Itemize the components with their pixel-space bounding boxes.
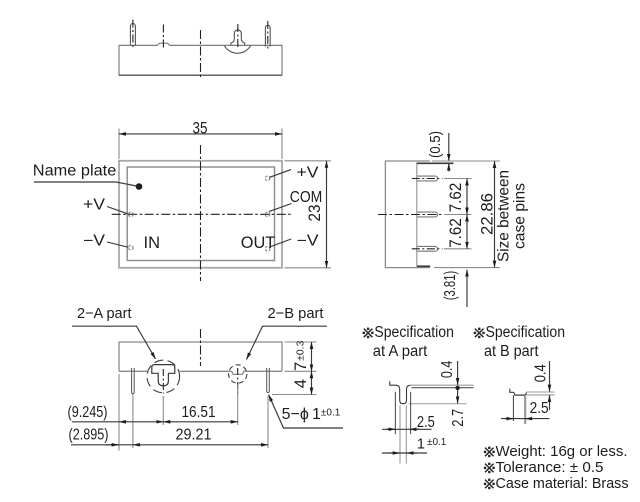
view 2: plan view bbox=[33, 118, 331, 281]
dim line 16.51 bbox=[163, 421, 237, 423]
svg-text:Specification: Specification bbox=[374, 324, 454, 341]
left pin centerline (view 1) bbox=[132, 20, 134, 50]
spec A dim 1 arrows bbox=[389, 452, 400, 454]
case inner wall (view 3) bbox=[416, 163, 418, 267]
case bottom lip (view 3) bbox=[417, 265, 430, 267]
svg-text:(2.895): (2.895) bbox=[69, 426, 109, 443]
vertical centerline (view 2) bbox=[200, 145, 202, 281]
dim 35 extension line left bbox=[118, 129, 120, 160]
pin circle right top (view 2) bbox=[265, 176, 270, 181]
dim (2.895) outside arrow bbox=[106, 444, 119, 446]
B part centerline (view 4) bbox=[237, 368, 239, 395]
svg-text:(9.245): (9.245) bbox=[68, 404, 108, 421]
svg-text:0.4: 0.4 bbox=[439, 360, 456, 378]
dim (0.5) lower stem bbox=[448, 164, 450, 172]
spec A: pin inner wall right bbox=[405, 406, 407, 464]
right pin centerline (view 1) bbox=[267, 21, 269, 49]
spec B dim 2.5 arrows bbox=[504, 418, 513, 420]
spec B: left wall extended bbox=[512, 395, 514, 421]
dim line (9.245) left tail bbox=[72, 421, 119, 423]
case outer rect (view 2) bbox=[119, 161, 282, 268]
leader -V left bbox=[107, 242, 128, 247]
case bottom edge right segment (view 4) bbox=[247, 370, 282, 372]
dim line 22.86 bbox=[494, 161, 496, 268]
A part dashed circle (view 4) bbox=[147, 360, 180, 393]
note weight bbox=[484, 447, 495, 458]
dim line 7.62 upper bbox=[466, 179, 468, 215]
case bottom edge mid segment (view 4) bbox=[180, 370, 229, 372]
leader +V left bbox=[107, 207, 128, 215]
header Specification at B part bbox=[474, 328, 485, 339]
dim 22.86 extension top bbox=[432, 160, 500, 162]
dim 23 extension line bottom bbox=[285, 267, 332, 269]
case body (view 4) bbox=[119, 342, 282, 371]
dim line 29.21 bbox=[133, 444, 268, 446]
svg-text:Specification: Specification bbox=[486, 324, 566, 341]
left pin (view 4) bbox=[132, 368, 135, 393]
spec A dim 2.5 arrows bbox=[386, 428, 395, 430]
spec A: pin outer wall right bbox=[410, 392, 412, 435]
pin circle right bottom (view 2) bbox=[265, 247, 270, 252]
name plate dot bbox=[136, 183, 143, 190]
svg-text:+V: +V bbox=[83, 196, 106, 213]
svg-text:at B part: at B part bbox=[484, 343, 539, 360]
A-part boss arc (view 1) bbox=[224, 45, 250, 53]
svg-text:7.62: 7.62 bbox=[447, 218, 465, 248]
A-part centerline (view 1) bbox=[237, 24, 239, 48]
spec B dim 0.4 lower stem bbox=[549, 395, 551, 410]
svg-text:22.86: 22.86 bbox=[479, 193, 497, 235]
leader +V right bbox=[269, 170, 291, 178]
spec A dim 0.4 stem bbox=[457, 361, 459, 385]
spec A: case bottom top surface right bbox=[411, 384, 474, 386]
spec A: case bottom lower surface right bbox=[412, 387, 474, 389]
spec B: case surface with recess bbox=[510, 389, 527, 396]
note tolerance bbox=[484, 463, 495, 474]
svg-text:35: 35 bbox=[193, 118, 208, 137]
svg-text:Name plate: Name plate bbox=[33, 162, 117, 179]
svg-text:2.7: 2.7 bbox=[450, 409, 467, 427]
svg-text:(0.5): (0.5) bbox=[428, 131, 444, 158]
svg-text:−V: −V bbox=[297, 232, 320, 249]
svg-text:29.21: 29.21 bbox=[176, 426, 212, 443]
vertical centerline (view 4) bbox=[200, 329, 202, 366]
svg-text:at A part: at A part bbox=[373, 343, 428, 360]
svg-text:2.5: 2.5 bbox=[530, 400, 549, 417]
svg-text:4: 4 bbox=[292, 379, 310, 388]
spec A: pin inner wall left bbox=[399, 406, 401, 464]
spec headers and notes bbox=[363, 324, 629, 492]
bump centerline (view 1) bbox=[162, 25, 164, 49]
ext line body left (view 4) bbox=[118, 374, 120, 451]
svg-text:case pins: case pins bbox=[512, 183, 529, 249]
case bottom edge left segment (view 4) bbox=[119, 370, 147, 372]
ext line 7dim top (view 4) bbox=[285, 341, 317, 343]
dim 23 extension line top bbox=[285, 160, 332, 162]
view 3: side view with case pins bbox=[378, 131, 529, 307]
svg-text:2−B part: 2−B part bbox=[268, 305, 325, 322]
svg-text:7.62: 7.62 bbox=[447, 183, 465, 213]
dim line (9.245) bbox=[119, 421, 163, 423]
pin extension line middle (view 3) bbox=[444, 214, 472, 216]
spec B: recess bottom bbox=[515, 394, 525, 396]
svg-text:2.5: 2.5 bbox=[417, 414, 435, 431]
A part T pin (view 4) bbox=[152, 365, 175, 386]
A-part T pin (view 1) bbox=[231, 30, 245, 45]
top pin (view 3) bbox=[417, 176, 438, 181]
left pin (view 1) bbox=[130, 24, 135, 46]
spec A: pin outer wall left bbox=[394, 392, 396, 435]
case body outline (view 3) bbox=[385, 161, 429, 268]
leader -V right bbox=[270, 239, 292, 247]
spec B dim 2.5 line bbox=[501, 418, 550, 420]
view 1: case top-edge view bbox=[119, 20, 282, 80]
svg-text:2−A part: 2−A part bbox=[77, 305, 132, 322]
svg-text:−V: −V bbox=[83, 232, 106, 249]
dim line 4 bbox=[311, 371, 313, 394]
dim (0.5) upper stem bbox=[448, 133, 450, 161]
ext line left pin (view 4) bbox=[132, 394, 134, 448]
spec A dim 2.5 line bbox=[382, 428, 432, 430]
right pin (view 4) bbox=[267, 368, 270, 392]
case body outline (view 1) bbox=[119, 43, 282, 75]
central centerline (view 1) bbox=[200, 30, 202, 79]
header Specification at A part bbox=[363, 328, 374, 339]
svg-text:OUT: OUT bbox=[241, 234, 275, 252]
case bottom edge B notch (view 4) bbox=[229, 371, 247, 374]
spec A dim 2.7 stem bbox=[457, 390, 459, 404]
spec B: case bottom top surface right bbox=[526, 391, 554, 393]
case bottom edge darker (view 1) bbox=[119, 74, 282, 76]
svg-text:+V: +V bbox=[297, 165, 320, 182]
B part dashed circle (view 4) bbox=[229, 365, 247, 383]
dim 22.86 extension bottom bbox=[434, 267, 500, 269]
ext line 7dim bottom / body bottom extended (view 4) bbox=[285, 370, 317, 372]
A part centerline (view 4) bbox=[162, 369, 164, 394]
ext line right pin (view 4) bbox=[267, 396, 269, 448]
pin extension line bottom (view 3) bbox=[444, 248, 472, 250]
spec A dim 1+-0.1 line bbox=[382, 452, 427, 454]
leader 5-phi1 underline bbox=[269, 395, 343, 428]
svg-text:Size between: Size between bbox=[496, 170, 513, 262]
bottom pin (view 3) bbox=[417, 246, 438, 251]
pin circle left bottom (view 2) bbox=[129, 245, 134, 250]
spec A dim 0.4 dot bbox=[455, 386, 459, 390]
svg-text:Case material: Brass: Case material: Brass bbox=[496, 475, 629, 492]
svg-text:16.51: 16.51 bbox=[182, 404, 216, 421]
leader 2-B part bbox=[247, 326, 328, 359]
middle pin and body centerline (view 3) bbox=[378, 214, 443, 216]
dim line 7+-0.3 bbox=[311, 342, 313, 371]
svg-text:0.4: 0.4 bbox=[533, 364, 550, 382]
note case material bbox=[484, 479, 495, 490]
view 4: front view with A and B parts bbox=[68, 305, 344, 450]
leader 2-A part bbox=[72, 326, 156, 359]
ext line B center (view 4) bbox=[237, 385, 239, 426]
pin circle left middle (view 2) bbox=[129, 212, 134, 217]
case inner rect (view 2) bbox=[127, 167, 274, 261]
top pin centerline (view 3) bbox=[412, 178, 443, 180]
ext line A center (view 4) bbox=[162, 396, 164, 425]
bottom pin centerline (view 3) bbox=[412, 248, 443, 250]
pin extension line top (view 3) bbox=[444, 178, 472, 180]
horizontal centerline (view 2) bbox=[112, 213, 291, 215]
dim line (2.895) left tail bbox=[71, 444, 133, 446]
spec A: groove bottom reference line bbox=[409, 403, 467, 405]
dim line 35 bbox=[119, 133, 282, 135]
svg-text:Weight: 16g or less.: Weight: 16g or less. bbox=[496, 443, 628, 460]
leader COM bbox=[269, 204, 292, 212]
case top lip (view 3) bbox=[417, 162, 454, 164]
spec B: case bottom lower surface right bbox=[526, 394, 554, 396]
svg-text:COM: COM bbox=[290, 189, 323, 206]
spec A: case surface with groove bbox=[390, 381, 411, 403]
dim 35 extension line right bbox=[281, 129, 283, 160]
dim line 7.62 lower bbox=[466, 215, 468, 249]
svg-text:IN: IN bbox=[144, 234, 161, 252]
svg-text:23: 23 bbox=[305, 205, 324, 222]
pin circle right middle (view 2) bbox=[265, 212, 270, 217]
ext line pin tip level (view 4) bbox=[272, 394, 317, 396]
leader Name plate bbox=[34, 182, 137, 186]
spec B dim 0.4 stem bbox=[549, 361, 551, 392]
svg-text:(3.81): (3.81) bbox=[442, 271, 459, 301]
svg-text:Tolerance: ± 0.5: Tolerance: ± 0.5 bbox=[496, 459, 604, 476]
spec B: pin section bbox=[524, 395, 526, 424]
middle pin (view 3) bbox=[417, 212, 438, 217]
right pin (view 1) bbox=[265, 25, 270, 46]
dim (3.81) stem bbox=[466, 270, 468, 307]
dim line 23 bbox=[326, 161, 328, 268]
